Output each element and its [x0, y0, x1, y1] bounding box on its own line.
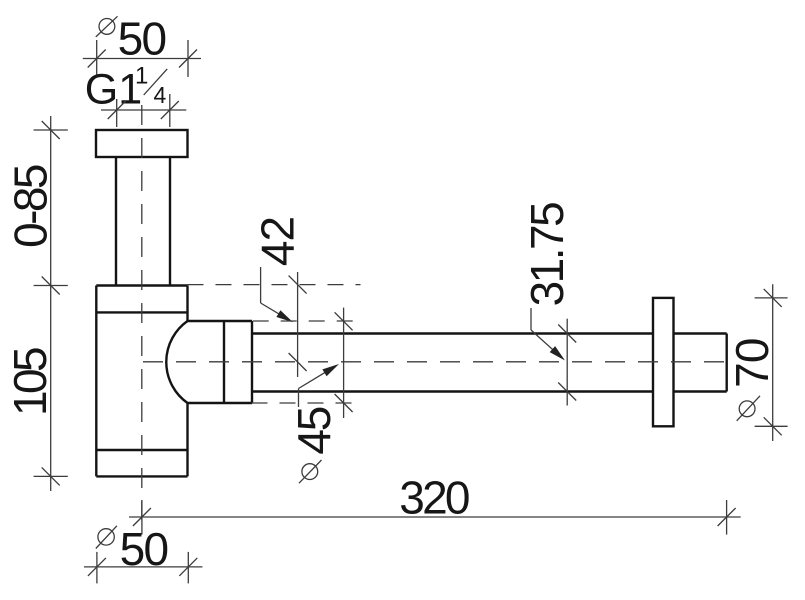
svg-text:50: 50 — [118, 13, 166, 65]
dimension 42 — [188, 217, 361, 377]
outlet dome elbow — [166, 321, 252, 403]
svg-text:1: 1 — [135, 63, 148, 90]
svg-text:320: 320 — [399, 471, 469, 523]
trap cup body — [96, 286, 187, 477]
svg-text:70: 70 — [726, 338, 778, 388]
svg-text:4: 4 — [154, 82, 167, 108]
dimension d50 top — [83, 13, 201, 78]
label G1 1/4 — [85, 63, 167, 114]
dimension 320 — [129, 471, 741, 534]
svg-text:31.75: 31.75 — [521, 203, 573, 307]
outlet stub — [674, 334, 727, 392]
svg-text:50: 50 — [120, 523, 168, 575]
inlet vertical pipe — [116, 157, 170, 286]
dimension d50 bottom — [84, 523, 202, 583]
horizontal outlet pipe — [252, 334, 653, 392]
dimension d70 — [726, 284, 788, 441]
svg-text:0-85: 0-85 — [5, 165, 57, 248]
svg-text:105: 105 — [4, 348, 56, 416]
svg-text:42: 42 — [252, 217, 304, 266]
wall flange — [653, 298, 674, 426]
svg-text:G1: G1 — [85, 66, 142, 114]
dimension 31.75 — [521, 203, 576, 406]
dimension d45 — [252, 308, 361, 484]
inlet top flange — [96, 130, 188, 157]
svg-text:45: 45 — [288, 407, 340, 454]
horizontal centerline — [143, 361, 734, 363]
vertical centerline — [141, 105, 143, 535]
dimension 0-85 and 105 left — [4, 116, 68, 491]
dimension G1 1/4 thread — [101, 94, 186, 127]
